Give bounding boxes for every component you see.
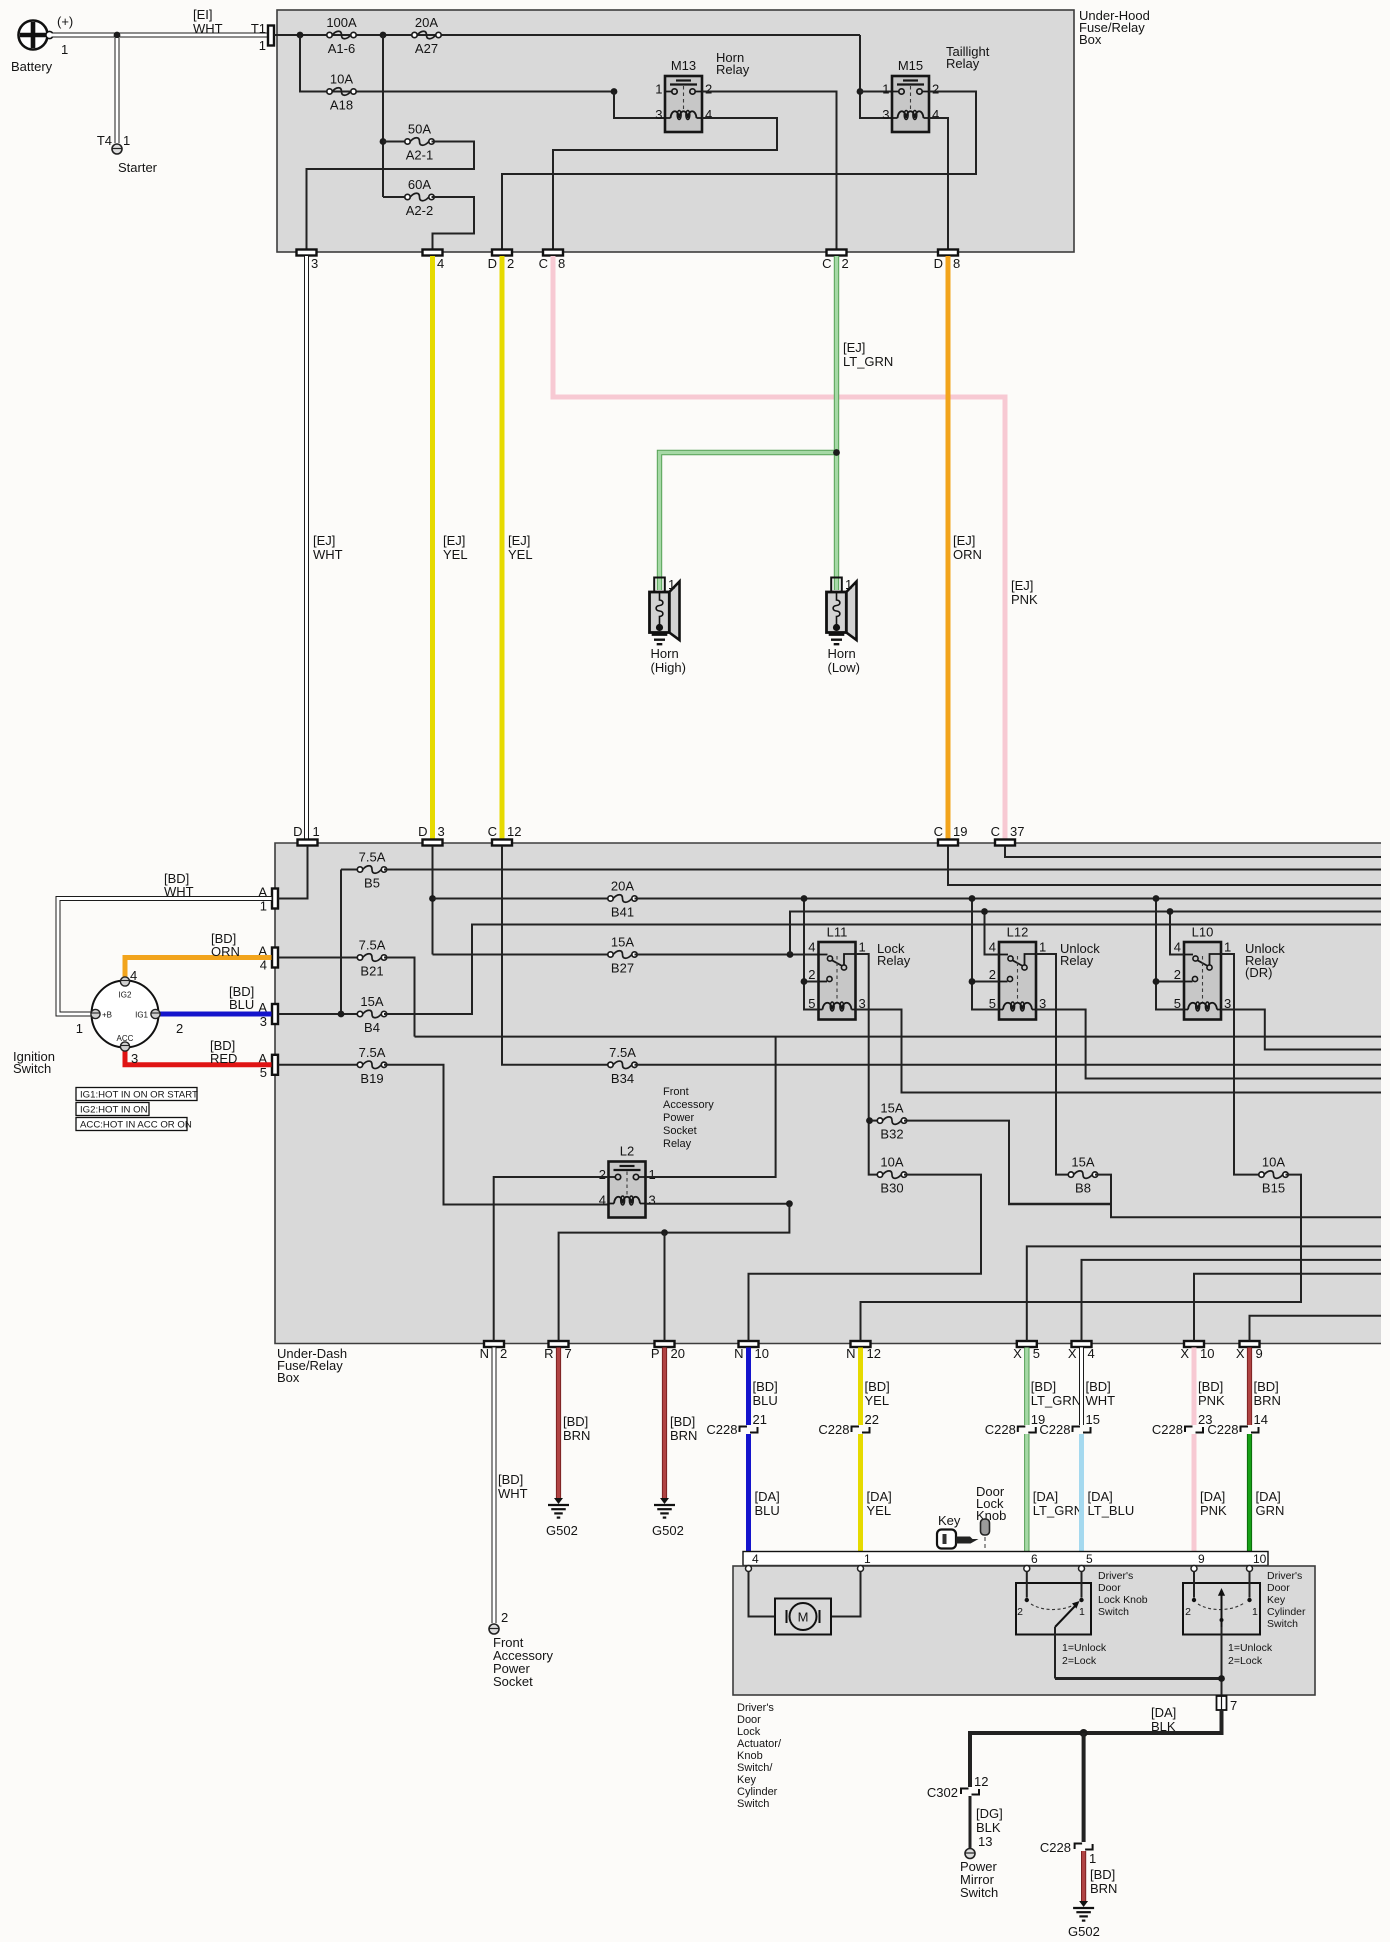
wire [BD] YEL (N12 yellow upper) [858, 1348, 863, 1426]
svg-text:1: 1 [1252, 1606, 1258, 1618]
svg-text:Box: Box [277, 1370, 300, 1385]
under-dash fuse/relay box [275, 843, 1381, 1344]
svg-text:8: 8 [558, 256, 565, 271]
svg-text:12: 12 [507, 824, 521, 839]
svg-text:[BD]: [BD] [1090, 1867, 1115, 1882]
node B27 branch [787, 951, 794, 958]
wire L10 pin3 output [1221, 1010, 1381, 1050]
ground G502 (bottom) [1073, 1901, 1094, 1921]
wire bus to M15 [860, 35, 892, 118]
svg-text:A2-2: A2-2 [406, 203, 433, 218]
svg-text:2: 2 [1185, 1606, 1191, 1618]
wire L11 pin2/pin5 feed [804, 899, 819, 1010]
connector A1 (under-dash left) [272, 889, 278, 909]
svg-text:M15: M15 [898, 58, 923, 73]
svg-text:[EJ]: [EJ] [953, 533, 975, 548]
svg-text:Socket: Socket [663, 1125, 697, 1137]
wire L10 pin4 feed [1170, 912, 1184, 955]
wire L12 pin1 to B8 [1036, 954, 1071, 1175]
svg-text:4: 4 [130, 968, 137, 983]
fuse 15A B32 [870, 1120, 881, 1122]
svg-text:BRN: BRN [1254, 1393, 1281, 1408]
svg-text:[BD]: [BD] [498, 1472, 523, 1487]
svg-text:R: R [544, 1346, 553, 1361]
svg-text:1: 1 [76, 1021, 83, 1036]
svg-text:C: C [822, 256, 831, 271]
svg-text:12: 12 [867, 1346, 881, 1361]
svg-text:N: N [480, 1346, 489, 1361]
svg-text:Door: Door [1098, 1582, 1121, 1594]
svg-text:2: 2 [932, 82, 939, 97]
wire M15 pin4 to connector D8 [929, 118, 948, 249]
wire BD RED (ACC to A5) [125, 1050, 272, 1065]
wire to fuse A18 [300, 35, 614, 92]
connector X5 (under-dash bottom) [1017, 1341, 1037, 1347]
svg-text:+B: +B [102, 1011, 112, 1020]
svg-text:C228: C228 [1152, 1422, 1183, 1437]
svg-text:Box: Box [1079, 32, 1102, 47]
svg-text:7: 7 [1230, 1698, 1237, 1713]
svg-text:RED: RED [210, 1051, 237, 1066]
connector X10 (under-dash bottom) [1184, 1341, 1204, 1347]
svg-text:7.5A: 7.5A [359, 850, 386, 865]
svg-text:C228: C228 [706, 1422, 737, 1437]
svg-text:[DG]: [DG] [976, 1806, 1003, 1821]
wire BD BLU (IG1 to A3) [159, 1012, 272, 1017]
svg-text:B34: B34 [611, 1071, 634, 1086]
wire [DA] GRN (X9 brown/green lower) [1247, 1434, 1252, 1566]
svg-text:1: 1 [1089, 1851, 1096, 1866]
svg-text:9: 9 [1256, 1346, 1263, 1361]
svg-text:X: X [1180, 1346, 1189, 1361]
svg-text:[BD]: [BD] [753, 1379, 778, 1394]
wire BLK to C228 [1082, 1733, 1086, 1842]
svg-text:LT_BLU: LT_BLU [1088, 1503, 1135, 1518]
svg-text:PNK: PNK [1198, 1393, 1225, 1408]
svg-text:[BD]: [BD] [563, 1414, 588, 1429]
wire D1 to A1 [279, 846, 308, 899]
svg-text:Switch: Switch [1098, 1606, 1129, 1618]
connector C228 pin 19 [1018, 1427, 1036, 1433]
svg-text:Cylinder: Cylinder [737, 1786, 778, 1798]
svg-text:YEL: YEL [508, 547, 533, 562]
wire [DA] BLU (N10 blue lower) [746, 1434, 751, 1566]
svg-text:Key: Key [1267, 1594, 1286, 1606]
fuse 20A A27 [412, 31, 441, 39]
wire B30 output to N10 [749, 1175, 982, 1341]
wire A2 branch down [382, 35, 384, 197]
node bus A18 branch [297, 32, 304, 39]
svg-text:(Low): (Low) [828, 660, 861, 675]
svg-text:BLU: BLU [755, 1503, 780, 1518]
svg-text:4: 4 [808, 940, 815, 955]
svg-text:PNK: PNK [1011, 592, 1038, 607]
svg-text:22: 22 [865, 1412, 879, 1427]
svg-text:C: C [991, 824, 1000, 839]
wire B5 left leg [340, 870, 342, 1015]
svg-text:2=Lock: 2=Lock [1062, 1655, 1097, 1667]
wire C37 right bus [1005, 846, 1381, 857]
relay L10 unlock relay DR [1184, 942, 1221, 1020]
svg-text:3: 3 [131, 1051, 138, 1066]
wire motor leads [749, 1572, 776, 1617]
node R7/P20 branch [786, 1200, 793, 1207]
svg-text:(+): (+) [57, 14, 73, 29]
wire M13 pin2 to connector C2 [702, 92, 837, 250]
svg-text:Switch: Switch [737, 1798, 769, 1810]
connector C19 (under-dash top) [938, 840, 958, 846]
svg-text:1=Unlock: 1=Unlock [1228, 1642, 1273, 1654]
svg-text:2: 2 [989, 967, 996, 982]
wire B27 row [433, 954, 611, 956]
svg-text:D: D [488, 256, 497, 271]
svg-text:Socket: Socket [493, 1674, 533, 1689]
svg-text:4: 4 [599, 1193, 606, 1208]
mechanical link (dashed) [985, 1537, 1221, 1617]
wire knob switch common [1054, 1627, 1056, 1679]
wire L11 pin3 output [856, 1010, 1382, 1093]
svg-text:15A: 15A [880, 1101, 903, 1116]
svg-text:B19: B19 [360, 1071, 383, 1086]
svg-text:M13: M13 [671, 58, 696, 73]
svg-text:21: 21 [753, 1412, 767, 1427]
svg-text:3: 3 [882, 107, 889, 122]
connector N10 (under-dash bottom) [739, 1341, 759, 1347]
driver door lock actuator box [733, 1566, 1315, 1695]
wire B41 bus [635, 898, 1382, 900]
svg-text:7: 7 [565, 1346, 572, 1361]
svg-text:LT_GRN: LT_GRN [1033, 1503, 1083, 1518]
note ACC hot [76, 1118, 187, 1131]
svg-text:2: 2 [599, 1167, 606, 1182]
svg-text:Relay: Relay [663, 1138, 692, 1150]
svg-text:3: 3 [649, 1193, 656, 1208]
svg-text:ACC: ACC [117, 1034, 134, 1043]
svg-text:WHT: WHT [193, 21, 223, 36]
svg-text:19: 19 [953, 824, 967, 839]
svg-text:ORN: ORN [211, 944, 240, 959]
svg-text:L12: L12 [1007, 925, 1029, 940]
svg-text:Actuator/: Actuator/ [737, 1738, 782, 1750]
svg-text:T1: T1 [251, 21, 266, 36]
fuse 7.5A B5 [341, 869, 360, 871]
connector C228 pin 15 [1073, 1427, 1091, 1433]
connector C228 pin 1 (bottom) [1075, 1844, 1093, 1850]
connector C8 [543, 250, 563, 256]
svg-text:A2-1: A2-1 [406, 148, 433, 163]
svg-text:1: 1 [859, 940, 866, 955]
svg-text:10: 10 [1200, 1346, 1214, 1361]
svg-text:Switch/: Switch/ [737, 1762, 773, 1774]
front accessory power socket terminal [489, 1624, 499, 1634]
connector C228 pin 14 [1241, 1427, 1259, 1433]
connector C302 pin 12 [961, 1789, 979, 1795]
node L10 pin4 [1167, 908, 1174, 915]
wire M13 pin3 feed [614, 92, 665, 119]
svg-text:4: 4 [705, 107, 712, 122]
svg-text:[BD]: [BD] [865, 1379, 890, 1394]
svg-text:Key: Key [737, 1774, 756, 1786]
svg-text:Door: Door [737, 1714, 761, 1726]
wire battery to T1 (EI WHT) [52, 33, 268, 38]
svg-text:1: 1 [864, 1552, 871, 1566]
wire EJ YEL (4 to D3) [430, 256, 435, 840]
svg-text:10A: 10A [330, 72, 353, 87]
svg-text:N: N [846, 1346, 855, 1361]
svg-text:2: 2 [1174, 967, 1181, 982]
wire [BD] LT_GRN (X5 light green upper) [1024, 1348, 1029, 1426]
svg-text:4: 4 [437, 256, 444, 271]
starter terminal [112, 144, 122, 154]
svg-text:15: 15 [1086, 1412, 1100, 1427]
svg-text:(DR): (DR) [1245, 965, 1272, 980]
wire L11 pin1 to B32/B30 [856, 954, 881, 1175]
horn low [827, 578, 857, 645]
svg-text:[EJ]: [EJ] [508, 533, 530, 548]
svg-text:ACC:HOT IN ACC OR ON: ACC:HOT IN ACC OR ON [80, 1120, 192, 1131]
svg-text:A18: A18 [330, 98, 353, 113]
fuse 10A B30 [877, 1171, 906, 1179]
svg-text:20A: 20A [415, 15, 438, 30]
svg-text:B4: B4 [364, 1020, 380, 1035]
svg-text:Horn: Horn [651, 646, 679, 661]
svg-text:B30: B30 [880, 1181, 903, 1196]
svg-text:[DA]: [DA] [1256, 1489, 1281, 1504]
connector X9 (under-dash bottom) [1240, 1341, 1260, 1347]
wire M15 pin1 stub [860, 91, 892, 93]
svg-text:10A: 10A [1262, 1155, 1285, 1170]
wire X5 riser [1027, 1246, 1381, 1340]
svg-text:[DA]: [DA] [1200, 1489, 1225, 1504]
relay L12 unlock relay [999, 942, 1036, 1020]
svg-text:A1-6: A1-6 [328, 41, 355, 56]
svg-text:D: D [293, 824, 302, 839]
connector D1 (under-dash top) [298, 840, 318, 846]
wire DA BLK [970, 1710, 1222, 1787]
node B32 feed [866, 1117, 873, 1124]
connector 7 [1217, 1696, 1227, 1710]
svg-text:X: X [1013, 1346, 1022, 1361]
svg-text:12: 12 [974, 1774, 988, 1789]
svg-text:G502: G502 [546, 1523, 578, 1538]
wire [BD] BLU (N10 blue upper) [746, 1348, 751, 1426]
svg-text:Lock: Lock [737, 1726, 761, 1738]
svg-text:4: 4 [989, 940, 996, 955]
ground G502 (P20) [654, 1498, 675, 1518]
svg-text:YEL: YEL [867, 1503, 892, 1518]
wire 60A output to connector 4 [432, 197, 475, 249]
svg-text:1: 1 [845, 577, 852, 592]
svg-text:1=Unlock: 1=Unlock [1062, 1642, 1107, 1654]
svg-text:G502: G502 [652, 1523, 684, 1538]
wire BD BRN (P20 to G502) [662, 1348, 667, 1499]
fuse 100A A1-6 [327, 31, 356, 39]
ignition switch [92, 981, 159, 1048]
svg-text:1: 1 [1079, 1606, 1085, 1618]
wire EJ PNK (C8 to C37) [553, 256, 1005, 840]
knob switch [1016, 1572, 1091, 1635]
svg-text:C302: C302 [927, 1785, 958, 1800]
wire to starter [115, 38, 120, 143]
wire L2 pin2 to N2 [494, 1177, 609, 1341]
connector A3 (under-dash left) [272, 1004, 278, 1024]
svg-text:IG1:HOT IN ON OR START: IG1:HOT IN ON OR START [80, 1090, 198, 1101]
svg-text:B41: B41 [611, 905, 634, 920]
ground G502 (R7) [548, 1498, 569, 1518]
wire [DA] YEL (N12 yellow lower) [858, 1434, 863, 1566]
svg-text:C228: C228 [818, 1422, 849, 1437]
wire BD BRN (R7 to G502) [556, 1348, 561, 1499]
wire A5 to B19 [279, 1064, 361, 1066]
svg-text:M: M [798, 1610, 809, 1625]
wire B32 output to B8 leg [904, 1121, 1111, 1205]
wire B8 output bus [1095, 1175, 1381, 1218]
svg-text:L11: L11 [827, 925, 848, 940]
svg-text:Knob: Knob [737, 1750, 763, 1762]
svg-text:100A: 100A [326, 15, 357, 30]
wire EJ WHT (3 to D1) [304, 256, 309, 840]
fuse 60A A2-2 [383, 196, 408, 198]
svg-text:1: 1 [259, 38, 266, 53]
connector C228 pin 22 [852, 1427, 870, 1433]
svg-text:[EI]: [EI] [193, 7, 213, 22]
svg-text:IG2:HOT IN ON: IG2:HOT IN ON [80, 1105, 148, 1116]
svg-text:WHT: WHT [1086, 1393, 1116, 1408]
svg-text:Driver's: Driver's [737, 1702, 774, 1714]
svg-text:7.5A: 7.5A [609, 1045, 636, 1060]
svg-text:L2: L2 [620, 1144, 634, 1159]
svg-text:4: 4 [1088, 1346, 1095, 1361]
svg-text:2: 2 [808, 967, 815, 982]
svg-text:Relay: Relay [716, 62, 750, 77]
svg-text:LT_GRN: LT_GRN [1031, 1393, 1081, 1408]
svg-text:Switch: Switch [960, 1885, 998, 1900]
svg-text:BRN: BRN [1090, 1881, 1117, 1896]
node BLK branch [1080, 1729, 1088, 1737]
fuse 7.5A B34 [608, 1061, 637, 1069]
svg-text:IG2: IG2 [119, 991, 132, 1000]
wire [BD] WHT (X4 white/ltblue upper) [1079, 1348, 1084, 1426]
svg-text:1: 1 [668, 577, 675, 592]
node L12 feeds [969, 895, 976, 902]
svg-text:WHT: WHT [164, 884, 194, 899]
svg-text:ORN: ORN [953, 547, 982, 562]
door connector strip [743, 1552, 1268, 1566]
svg-text:1: 1 [1039, 940, 1046, 955]
svg-text:Relay: Relay [877, 953, 911, 968]
fuse 7.5A B21 [357, 954, 386, 962]
svg-text:YEL: YEL [443, 547, 468, 562]
connector X4 (under-dash bottom) [1072, 1341, 1092, 1347]
svg-text:15A: 15A [611, 935, 634, 950]
fuse 7.5A B19 [357, 1061, 386, 1069]
wire L2 pin1 feed [646, 1037, 776, 1177]
svg-text:1: 1 [655, 82, 662, 97]
svg-text:G502: G502 [1068, 1924, 1100, 1939]
wire B41 row [433, 898, 611, 900]
node A2-2 branch [380, 138, 387, 145]
wire P20 drop [664, 1233, 666, 1341]
wire C19 right bus [948, 846, 1381, 885]
wire EJ LT_GRN (C2 to horns) [834, 256, 839, 590]
node L11 feeds [801, 895, 808, 902]
connector A5 (under-dash left) [272, 1055, 278, 1075]
svg-text:6: 6 [1031, 1552, 1038, 1566]
svg-text:[DA]: [DA] [755, 1489, 780, 1504]
svg-text:[EJ]: [EJ] [1011, 578, 1033, 593]
svg-text:BRN: BRN [670, 1428, 697, 1443]
horn high [650, 578, 680, 645]
wire A3 to B4 [279, 1013, 361, 1015]
fuse 15A B4 [357, 1010, 386, 1018]
wire B34 bus [635, 1064, 1382, 1066]
svg-text:X: X [1068, 1346, 1077, 1361]
fuse 15A B8 [1068, 1171, 1097, 1179]
svg-text:X: X [1236, 1346, 1245, 1361]
svg-text:YEL: YEL [865, 1393, 890, 1408]
fuse 10A A18 [327, 88, 356, 96]
wire M13 pin4 to connector C8 [553, 118, 777, 249]
power mirror switch terminal [965, 1849, 975, 1859]
wire EJ ORN (D8 to C19) [946, 256, 951, 840]
svg-text:2: 2 [507, 256, 514, 271]
connector C2 [827, 250, 847, 256]
svg-text:7.5A: 7.5A [359, 938, 386, 953]
svg-text:3: 3 [438, 824, 445, 839]
fuse 20A B41 [608, 895, 637, 903]
svg-text:BRN: BRN [563, 1428, 590, 1443]
svg-text:2: 2 [501, 1610, 508, 1625]
svg-text:[BD]: [BD] [1086, 1379, 1111, 1394]
wire L12 pin2/pin5 feed [972, 899, 999, 1010]
svg-text:C: C [488, 824, 497, 839]
svg-text:C228: C228 [1207, 1422, 1238, 1437]
svg-text:PNK: PNK [1200, 1503, 1227, 1518]
connector C12 (under-dash top) [492, 840, 512, 846]
svg-text:4: 4 [1174, 940, 1181, 955]
svg-text:3: 3 [655, 107, 662, 122]
wire BD WHT (N2 to socket) [492, 1348, 497, 1624]
svg-text:C228: C228 [1039, 1422, 1070, 1437]
wire B27 to unlock bus [790, 912, 1381, 955]
svg-text:7.5A: 7.5A [359, 1045, 386, 1060]
svg-text:[DA]: [DA] [867, 1489, 892, 1504]
connector C228 pin 21 [740, 1427, 758, 1433]
svg-text:D: D [934, 256, 943, 271]
connector 3 (under-hood) [297, 250, 317, 256]
wire [DA] LT_BLU (X4 white/ltblue lower) [1079, 1434, 1084, 1566]
note IG2 hot [76, 1103, 149, 1116]
node switch common junction [1218, 1675, 1225, 1682]
under-hood fuse/relay box [277, 10, 1074, 252]
svg-text:3: 3 [311, 256, 318, 271]
connector P20 (under-dash bottom) [655, 1341, 675, 1347]
svg-text:5: 5 [1033, 1346, 1040, 1361]
wire R7/P20 to L2 pin3 [559, 1204, 790, 1341]
fuse 50A A2-1 [383, 141, 408, 143]
wire [DA] PNK (X10 pink lower) [1192, 1434, 1197, 1566]
svg-text:Driver's: Driver's [1098, 1570, 1133, 1582]
wire X10 riser [1194, 1274, 1381, 1341]
svg-text:2: 2 [176, 1021, 183, 1036]
svg-text:A27: A27 [415, 41, 438, 56]
svg-text:10A: 10A [880, 1155, 903, 1170]
svg-text:WHT: WHT [498, 1486, 528, 1501]
svg-text:2=Lock: 2=Lock [1228, 1655, 1263, 1667]
svg-text:GRN: GRN [1256, 1503, 1285, 1518]
relay M15 [892, 76, 929, 132]
connector N2 (under-dash bottom) [484, 1341, 504, 1347]
